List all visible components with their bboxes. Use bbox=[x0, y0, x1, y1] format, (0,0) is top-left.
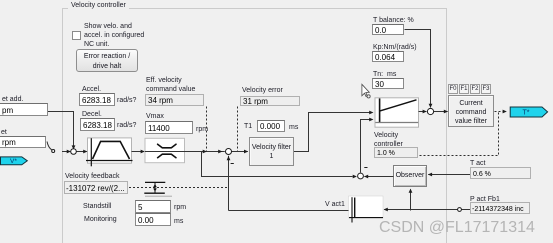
svg-text:V*: V* bbox=[10, 158, 17, 165]
svg-text:T*: T* bbox=[523, 110, 530, 117]
